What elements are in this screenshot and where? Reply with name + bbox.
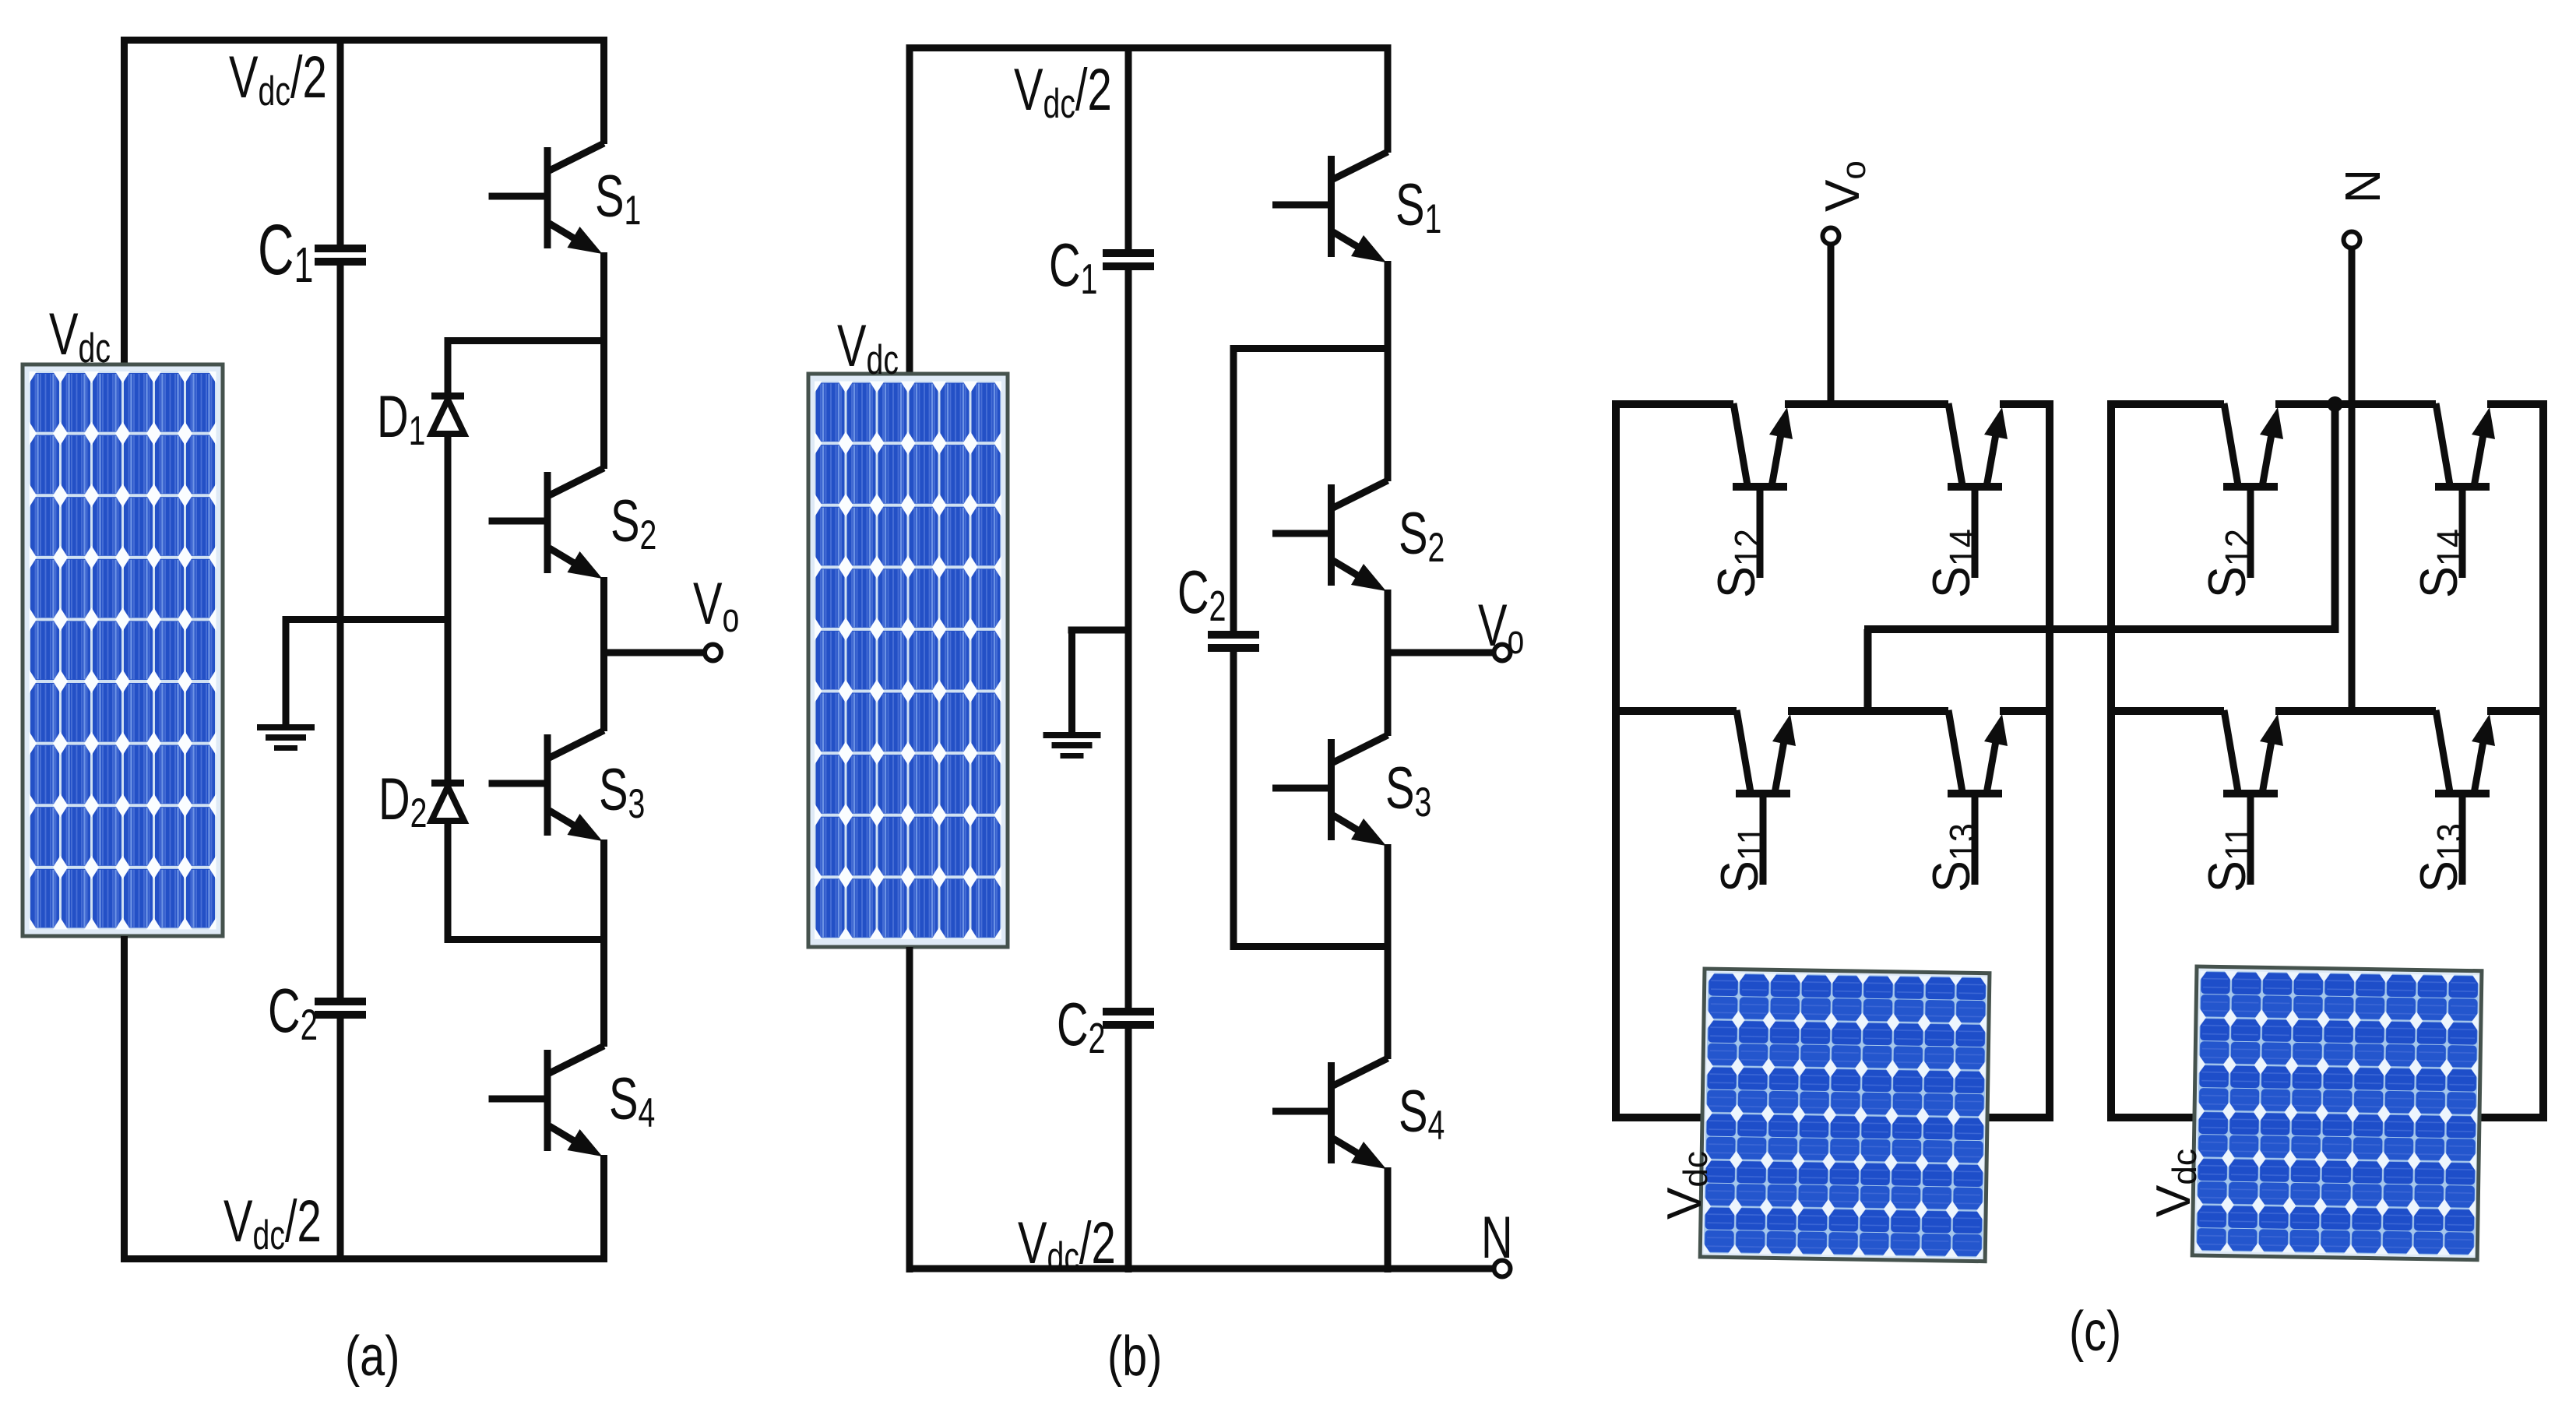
transistor S1 (a) — [489, 143, 604, 254]
wire H-bridge1 top bus (c) — [1612, 400, 1733, 408]
solar panel PV3 Vdc (c) left — [1700, 969, 1990, 1262]
wire H-bridge1 lower bus (c) — [1612, 707, 1737, 715]
wire C1 column middle (b) — [1125, 270, 1132, 1008]
transistor S13 bridge2 (c) — [2435, 710, 2495, 885]
wire D column middle (a) — [445, 434, 452, 780]
wire H-bridge2 left panel lead (c) — [2107, 1114, 2202, 1121]
transistor S14 bridge2 (c) — [2435, 403, 2495, 578]
wire left rail top (b) — [906, 44, 913, 374]
wire flying cap column upper (b) — [1230, 345, 1237, 632]
wire H-bridge1 right rail (c) — [2046, 400, 2053, 1121]
wire top bus (a) — [121, 37, 607, 44]
transistor S1 (b) — [1272, 152, 1388, 262]
wire H-bridge1 right panel lead (c) — [1986, 1114, 2053, 1121]
wire N stem (c) — [2349, 245, 2356, 715]
wire Vo stem (c) — [1828, 241, 1835, 400]
transistor S12 bridge2 (c) — [2223, 403, 2283, 578]
transistor S2 (b) — [1272, 480, 1388, 591]
ground (a) — [257, 724, 315, 751]
transistor S2 (a) — [489, 468, 604, 579]
wire midpoint to ground (a) — [283, 616, 452, 623]
capacitor C1 (a) — [315, 245, 366, 266]
wire left rail bottom (a) — [121, 936, 128, 1262]
wire left rail bottom (b) — [906, 947, 913, 1272]
transistor S14 (c) — [1948, 403, 2008, 578]
wire flying cap top (b) — [1230, 345, 1392, 352]
transistor S11 bridge2 (c) — [2223, 710, 2283, 885]
wire collector S1 (a) — [600, 37, 607, 144]
wire S1-S2 (b) — [1385, 261, 1392, 481]
wire left rail top (a) — [121, 37, 128, 364]
wire collector S1 (b) — [1385, 44, 1392, 153]
solar panel PV2 Vdc (b) — [808, 374, 1008, 947]
node junction dot (c) — [2328, 396, 2343, 412]
capacitor C2 flying (b) — [1208, 631, 1259, 652]
wire S1-S2 (a) — [600, 252, 607, 469]
transistor S12 (c) — [1733, 403, 1793, 578]
wire midpoint to ground (b) — [1068, 627, 1132, 634]
wire D column upper (a) — [445, 337, 452, 393]
node Vo terminal (c) — [1823, 228, 1839, 245]
wire H-bridge2 left rail (c) — [2107, 400, 2115, 1121]
solar panel PV4 Vdc (c) right — [2192, 966, 2482, 1260]
wire H-bridge1 left rail (c) — [1612, 400, 1620, 1121]
transistor S13 (c) — [1948, 710, 2008, 885]
wire top bus (b) — [906, 44, 1392, 51]
wire S2-S3 (a) — [600, 577, 607, 731]
wire ground stem (a) — [283, 616, 290, 725]
wire H-bridge2 top bus (c) — [2107, 400, 2224, 408]
solar panel PV1 Vdc (a) — [23, 364, 223, 936]
wire output Vo (b) — [1392, 649, 1494, 656]
node N terminal (b) — [1494, 1261, 1511, 1277]
capacitor C2 lower (b) — [1103, 1008, 1154, 1029]
transistor S3 (a) — [489, 730, 604, 841]
svg-text:N: N — [2335, 169, 2391, 203]
transistor S11 (c) — [1736, 710, 1796, 885]
wire C1 column upper (b) — [1125, 44, 1132, 250]
wire S4-bottom (a) — [600, 1155, 607, 1262]
svg-text:(c): (c) — [2069, 1300, 2121, 1363]
node Vo terminal (a) — [705, 645, 721, 661]
transistor S4 (a) — [489, 1046, 604, 1156]
node Vo terminal (b) — [1494, 645, 1511, 661]
svg-text:(b): (b) — [1107, 1325, 1162, 1388]
wire C1 column lower (b) — [1125, 1029, 1132, 1272]
wire S2-S3 (b) — [1385, 590, 1392, 736]
wire bridge link drop (c) — [1864, 629, 1872, 715]
capacitor C1 (b) — [1103, 249, 1154, 270]
wire H-bridge2 lower bus (c) — [2107, 707, 2224, 715]
transistor S4 (b) — [1272, 1058, 1388, 1169]
wire bottom bus (b) — [906, 1265, 1494, 1272]
ground (b) — [1043, 732, 1101, 759]
wire output Vo (a) — [607, 649, 705, 656]
wire clamp top (a) — [445, 337, 608, 344]
wire bridge link riser (c) — [2331, 400, 2339, 633]
diode D1 — [431, 392, 464, 434]
svg-text:(a): (a) — [345, 1325, 399, 1388]
wire H-bridge2 right rail (c) — [2539, 400, 2547, 1121]
wire flying cap bottom (b) — [1230, 943, 1392, 950]
diode D2 — [431, 780, 464, 821]
wire C column lower (a) — [337, 1019, 344, 1255]
wire S3-S4 (a) — [600, 839, 607, 1047]
wire bridge link horizontal (c) — [1864, 625, 2338, 633]
wire ground stem (b) — [1068, 627, 1075, 733]
wire S3-S4 (b) — [1385, 844, 1392, 1059]
wire H-bridge1 left panel lead (c) — [1612, 1114, 1710, 1121]
wire D column lower (a) — [445, 821, 452, 943]
svg-text:N: N — [1481, 1205, 1513, 1271]
wire bottom bus (a) — [121, 1255, 607, 1262]
wire C column middle (a) — [337, 266, 344, 998]
capacitor C2 (a) — [315, 998, 366, 1019]
wire clamp bottom (a) — [445, 936, 608, 943]
wire flying cap column lower (b) — [1230, 652, 1237, 950]
node N terminal (c) — [2344, 232, 2360, 248]
wire C column upper (a) — [337, 37, 344, 245]
transistor S3 (b) — [1272, 735, 1388, 846]
wire S4-bottom (b) — [1385, 1167, 1392, 1272]
wire H-bridge2 right panel lead (c) — [2476, 1114, 2547, 1121]
